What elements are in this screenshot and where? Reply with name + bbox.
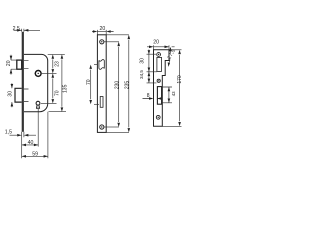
dim 8 line: [143, 98, 161, 100]
dim 27,5 line: [169, 48, 171, 65]
dim 20 latch text: [6, 60, 12, 66]
dim 70 arrows (middle): [89, 65, 92, 105]
svg-text:235: 235: [124, 81, 130, 90]
dim 1,5 text: [5, 129, 12, 135]
ext latch axis left: [94, 64, 97, 66]
ext stubs faceplate top: [22, 29, 24, 32]
svg-text:30: 30: [140, 58, 146, 64]
bottom screw hole: [100, 125, 104, 129]
dim 34,5 line: [148, 72, 150, 83]
deadbolt window (middle): [100, 97, 103, 108]
dim 235 arrows: [128, 35, 131, 133]
dim 230 text: [114, 81, 120, 90]
top screw hole (right): [157, 53, 161, 57]
dim 30 line: [11, 83, 13, 107]
dim 43 line: [168, 87, 170, 103]
dim 8 arrows: [149, 97, 161, 100]
ext plate top right: [106, 34, 129, 36]
dim 30 text: [7, 91, 13, 97]
svg-text:1,5: 1,5: [5, 129, 12, 135]
svg-text:59: 59: [32, 152, 38, 158]
ext plate top right to 170 dim: [169, 49, 182, 51]
dim 170 text: [177, 75, 183, 84]
dim 23 arrows: [52, 54, 55, 73]
dim 235 text: [124, 81, 130, 90]
dim 43 ext lines: [162, 87, 172, 103]
mid screw hole (right): [157, 79, 160, 82]
ext plate bottom right to 170 dim: [162, 125, 181, 127]
dim 70 line (middle): [90, 70, 92, 100]
svg-text:34,5: 34,5: [139, 70, 144, 79]
dim 70 text: [55, 90, 61, 96]
ext top hole axis right: [104, 41, 119, 43]
ext lines faceplate bottom: [22, 132, 24, 158]
dim 23 line: [52, 59, 54, 68]
dim 170 arrows: [178, 50, 181, 127]
dim 43 text: [171, 91, 176, 96]
deadbolt: [15, 88, 22, 102]
latch window with break lines: [99, 60, 104, 70]
latch guide lines inside case: [24, 60, 29, 68]
dim 135 arrows: [61, 54, 64, 111]
svg-text:20: 20: [153, 39, 159, 45]
svg-text:230: 230: [114, 81, 120, 90]
dim 30 arrows: [148, 50, 151, 72]
svg-text:2,5: 2,5: [13, 26, 20, 32]
svg-text:170: 170: [177, 75, 183, 84]
dim 20 text (middle): [100, 26, 106, 32]
svg-text:20: 20: [100, 26, 106, 32]
dim 1,5 arrows: [17, 134, 28, 137]
dim 70 arrows: [52, 73, 55, 103]
dim 59 arrows: [22, 155, 48, 158]
ext plate bottom right: [106, 131, 129, 133]
dim 8 text (right): [147, 93, 150, 99]
dim 40 line: [22, 144, 39, 146]
dim 135 text: [63, 84, 69, 93]
dim 20 text (right): [153, 39, 159, 45]
dim 2,5 line: [14, 29, 41, 31]
dim 30 arrows: [11, 84, 14, 106]
svg-text:30: 30: [7, 91, 13, 97]
bolt window (right): [157, 87, 161, 105]
ext line case top: [48, 53, 65, 55]
dim 230 line: [118, 47, 120, 122]
dim 235 line: [128, 40, 130, 128]
svg-text:70: 70: [86, 79, 92, 85]
faceplate outline (front): [97, 35, 106, 133]
dim 59 line: [22, 155, 48, 157]
dim 59 text: [32, 152, 38, 158]
deadbolt guide lines: [24, 89, 29, 102]
svg-text:43: 43: [171, 91, 176, 96]
ext bottom hole axis right: [104, 126, 119, 128]
dim 1,5 line: [10, 134, 37, 136]
strike plate outline: [154, 50, 170, 127]
dim 20 latch arrows: [10, 56, 13, 74]
faceplate (side): [22, 32, 24, 132]
ext line keyhole axis: [41, 102, 57, 104]
dim 20 line (middle): [92, 31, 114, 33]
dim 40 arrows: [22, 144, 39, 147]
top screw hole: [100, 40, 104, 44]
latch bolt: [17, 60, 22, 69]
ext stubs middle plate top: [97, 30, 106, 35]
dim 2,5 arrows: [17, 29, 28, 32]
dim 34,5 text: [139, 70, 144, 79]
dim 34,5 arrows: [148, 72, 151, 83]
dim 170 line: [179, 55, 181, 122]
ext stubs strike plate top: [154, 45, 170, 50]
svg-text:135: 135: [63, 84, 69, 93]
dim 30 text: [140, 58, 146, 64]
lock case body: [24, 54, 48, 111]
bottom screw hole (right): [156, 115, 160, 119]
ext bolt axis left: [94, 103, 99, 105]
dim 27,5 text: [167, 48, 177, 60]
ext line follower axis: [42, 72, 57, 74]
ext line keyhole axis down: [37, 109, 39, 147]
latch window (right): [157, 57, 162, 71]
svg-text:70: 70: [55, 90, 61, 96]
ext line case right down: [47, 112, 49, 159]
dim 20 arrows (middle): [93, 30, 111, 33]
dim 20 line (right): [147, 46, 175, 48]
dim 70 text (middle): [86, 79, 92, 85]
dim 40 text: [28, 140, 34, 146]
dim 70 line: [52, 78, 54, 98]
dim 230 arrows: [117, 42, 120, 127]
dim 43 arrows: [168, 87, 171, 103]
svg-text:40: 40: [28, 140, 34, 146]
dim 27,5 arrows: [168, 47, 172, 67]
dim 2,5 text: [13, 26, 20, 32]
dim 30/34,5 ext lines left: [147, 54, 157, 83]
dim 135 line: [61, 59, 63, 106]
dim 30 line: [148, 50, 150, 72]
keyhole: [36, 101, 40, 105]
follower hole: [35, 71, 41, 77]
dim 23 text: [54, 61, 60, 67]
svg-text:20: 20: [6, 60, 12, 66]
dim 20 latch line: [11, 55, 17, 75]
dim 20 arrows (right): [149, 46, 169, 49]
svg-text:23: 23: [54, 61, 60, 67]
ext line case bottom: [49, 111, 67, 113]
